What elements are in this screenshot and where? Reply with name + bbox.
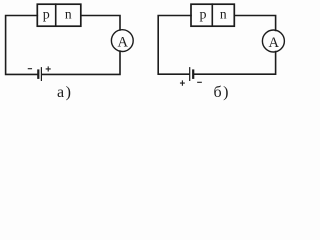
ammeter PA2 circuit b [262,30,284,52]
svg-text:а): а) [57,84,72,101]
wire bottom-right of circuit a [42,51,120,74]
p-n junction box DA2 circuit b [191,4,234,26]
svg-text:p: p [200,8,207,23]
svg-text:A: A [269,35,280,51]
battery GB2 positive plate (long thin) circuit b [189,68,191,81]
plus sign circuit a [46,67,50,71]
battery GB2 negative plate (short thick) circuit b [192,71,194,78]
plus sign circuit b [181,81,185,85]
wire top-right of circuit a [81,16,120,31]
wire left+top+bottom-left of circuit b [158,16,191,75]
wire left+top+bottom-left of circuit a [6,16,38,75]
svg-text:n: n [220,7,227,22]
svg-text:A: A [117,35,128,51]
battery GB1 positive plate (long thin) circuit a [40,68,42,81]
svg-text:б): б) [214,84,230,101]
svg-text:n: n [65,7,72,22]
ammeter PA1 circuit a [111,30,133,52]
minus sign circuit b [198,81,202,83]
junction divider circuit b [211,4,213,26]
svg-text:p: p [43,8,50,23]
wire top-right of circuit b [234,16,275,31]
battery GB1 negative plate (short thick) circuit a [37,71,39,78]
wire bottom-right of circuit b [194,52,275,75]
p-n junction box DA1 circuit a [37,4,81,26]
junction divider circuit a [55,4,57,26]
minus sign circuit a [28,68,31,70]
